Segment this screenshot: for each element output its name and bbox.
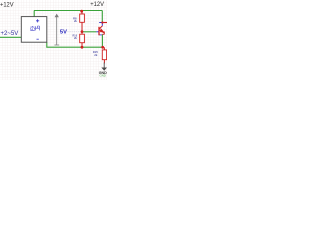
svg-text:2k: 2k [94,53,98,57]
svg-text:GND: GND [100,74,106,78]
svg-text:+2~5V: +2~5V [1,31,19,37]
svg-text:+12V: +12V [0,1,14,8]
svg-text:+12V: +12V [90,1,104,8]
svg-text:5V: 5V [60,30,67,36]
